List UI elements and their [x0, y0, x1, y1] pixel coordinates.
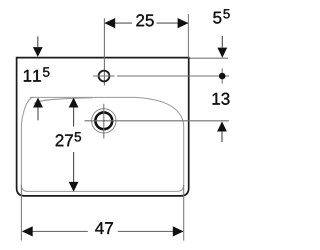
dimension 47 line right segment — [118, 230, 183, 232]
dimension 47 label — [95, 222, 113, 234]
rim top edge left stub — [30, 96, 34, 98]
dimension 5.5 arrow tail — [221, 36, 223, 48]
dimension 13 arrow tail — [221, 131, 223, 142]
dimension 27.5 lower tail — [73, 152, 75, 183]
extension line left for dim 47 — [20, 185, 22, 241]
drain outer circle — [92, 109, 116, 133]
extension line right edge above basin for dim 25 — [187, 14, 189, 58]
dimension 47 right arrow — [173, 226, 184, 236]
dimension 47 line left segment — [23, 230, 88, 232]
dimension 25 left arrow — [104, 18, 115, 28]
dimension 11.5 up arrow tail — [37, 107, 39, 120]
dimension 27.5 up arrow — [69, 98, 79, 108]
faucet line to reference dot — [117, 75, 229, 77]
dimension 13 label — [213, 93, 230, 105]
dimension 27.5 upper tail — [73, 107, 75, 126]
top edge extension line to the right — [190, 57, 229, 59]
drain center dot — [103, 120, 105, 122]
dimension 25 label — [136, 14, 153, 26]
dimension 11.5 label — [24, 70, 41, 82]
extension line right for dim 47 — [183, 185, 185, 241]
faucet cross tick left — [93, 75, 115, 77]
dimension 5.5 label — [213, 12, 221, 24]
dimension 25 line left segment — [105, 22, 132, 24]
dimension 11.5 down arrow — [33, 47, 43, 57]
dimension 27.5 down arrow — [69, 182, 79, 192]
drain horizontal centerline extended to 13 dimension — [85, 120, 229, 122]
faucet hole — [99, 71, 110, 82]
dimension 27.5 label — [56, 134, 73, 146]
drain inner circle — [95, 112, 112, 129]
dimension 25 right arrow — [178, 18, 189, 28]
centerline vertical through faucet — [103, 18, 105, 85]
basin outer outline — [17, 58, 189, 196]
bowl curve — [34, 98, 93, 104]
dimension 25 line right segment — [157, 22, 189, 24]
reference dot vertical tick — [221, 69, 223, 84]
reference dot — [219, 73, 226, 80]
dimension 11.5 up arrow — [33, 98, 43, 108]
dimension 47 left arrow — [22, 226, 33, 236]
basin inner rim — [21, 97, 183, 191]
dimension 5.5 down arrow — [217, 48, 227, 58]
dimension 11.5 down arrow tail — [37, 36, 39, 47]
dimension 13 up arrow — [217, 121, 227, 131]
drain vertical centerline — [103, 104, 105, 139]
